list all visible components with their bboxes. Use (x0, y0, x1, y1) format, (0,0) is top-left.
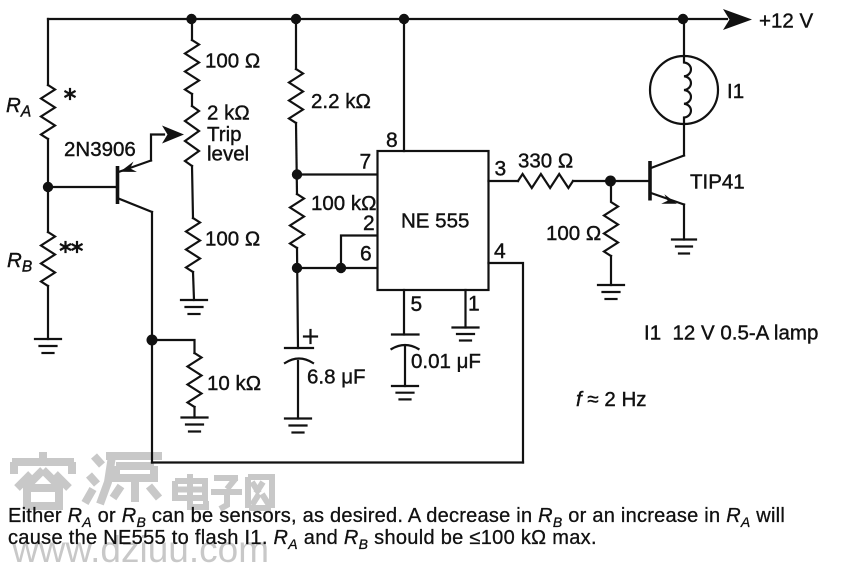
wire 100ohm to pot (191, 94, 193, 106)
resistor 100 kohm (290, 194, 304, 248)
caption line 1 (8, 505, 785, 530)
wire emitter Q2 to ground (683, 205, 685, 240)
wire 330 to base Q2 (573, 180, 649, 182)
wire rail to 2.2k (295, 19, 297, 69)
node rail/2.2k column (291, 14, 301, 24)
svg-text:5: 5 (411, 293, 423, 316)
svg-text:RA: RA (6, 94, 31, 121)
lamp I1 circle (650, 56, 718, 124)
node pin2/pin6 junction (336, 263, 346, 273)
node base Q2 junction (605, 176, 616, 187)
ground emitter Q2 (672, 240, 696, 254)
svg-text:100 Ω: 100 Ω (546, 222, 601, 245)
wire RB to ground (47, 286, 49, 339)
+12V arrowhead (723, 9, 752, 30)
ground below 100ohm (598, 285, 624, 299)
wire C2 to ground (404, 347, 406, 386)
capacitor C1 plus sign (304, 330, 317, 343)
wire 100k down to cap (297, 248, 298, 348)
capacitor C2 curved plate (392, 345, 419, 349)
capacitor C1 6.8uF plus plate (285, 347, 313, 349)
svg-text:10 kΩ: 10 kΩ (207, 372, 261, 395)
svg-text:0.01 μF: 0.01 μF (411, 350, 481, 373)
op-amp/timer U1 NE555 box (378, 151, 489, 290)
label double asterisk (61, 242, 82, 252)
ground below 10k (182, 418, 208, 432)
pin 1 wire (464, 290, 466, 328)
svg-text:4: 4 (494, 240, 506, 263)
wire pin 7 (297, 173, 378, 175)
svg-text:3: 3 (495, 158, 507, 181)
resistor 330 ohm (518, 174, 573, 188)
pin 4 wire (489, 263, 524, 463)
wire +12V top rail (48, 18, 727, 20)
ground below pot chain (181, 300, 207, 314)
wire 2.2k to node7 (296, 123, 297, 194)
svg-text:level: level (207, 143, 249, 166)
wire pin 6 (297, 267, 378, 269)
ground pin 1 (453, 328, 479, 341)
watermark chinese char yuan (85, 456, 162, 504)
label asterisk (65, 89, 74, 99)
svg-text:I1 12 V 0.5-A lamp: I1 12 V 0.5-A lamp (644, 322, 818, 345)
resistor RA (41, 85, 55, 139)
lamp filament coil (684, 56, 691, 124)
svg-text:I1: I1 (727, 80, 744, 103)
svg-text:NE 555: NE 555 (401, 210, 469, 233)
wire pot to lower 100ohm (192, 166, 193, 218)
ground below RB (35, 339, 61, 353)
pin 5 wire (403, 290, 405, 335)
wire pin 2 L (341, 236, 378, 269)
node base junction (43, 182, 53, 192)
pin 3 wire to 330 (489, 180, 519, 182)
wire rail to RA (47, 19, 49, 85)
ground below C2 (392, 386, 418, 399)
wire collector Q2 to lamp (683, 124, 685, 156)
svg-text:7: 7 (360, 151, 372, 174)
wire bottom rail (152, 461, 523, 463)
node rail/pot column (186, 14, 196, 24)
wire base Q1 (48, 186, 117, 188)
node pin7 junction (292, 169, 302, 179)
capacitor C2 0.01uF flat plate (392, 333, 419, 335)
capacitor C1 curved plate (285, 359, 313, 364)
wire to ground (193, 272, 194, 300)
svg-text:100 Ω: 100 Ω (205, 50, 260, 73)
wire 100ohm to ground (610, 256, 612, 285)
ground below C1 (285, 419, 311, 433)
resistor 100 ohm upper (185, 40, 199, 94)
svg-text:8: 8 (386, 129, 398, 152)
watermark chinese char dian (175, 474, 206, 507)
node pin6 junction (292, 263, 302, 273)
svg-text:1: 1 (468, 293, 480, 316)
node rail/lamp (678, 14, 688, 24)
watermark chinese char rong (12, 452, 74, 506)
svg-text:2: 2 (363, 212, 375, 235)
potentiometer 2k trip level (185, 106, 199, 166)
node rail/pin8 (399, 14, 409, 24)
svg-text:2N3906: 2N3906 (64, 138, 136, 161)
watermark chinese char zi (211, 478, 242, 509)
svg-text:+12 V: +12 V (759, 10, 813, 33)
transistor Q1 2N3906 (118, 135, 165, 213)
resistor 100 ohm base Q2 (604, 181, 618, 256)
wire RA to RB (47, 139, 49, 232)
svg-text:6.8 μF: 6.8 μF (307, 366, 366, 389)
wire collector Q1 down (151, 212, 153, 463)
svg-text:6: 6 (360, 243, 372, 266)
caption line 2 (8, 527, 597, 552)
wire C1 to ground (297, 361, 299, 419)
svg-text:100 Ω: 100 Ω (205, 228, 260, 251)
wire rail to 100ohm (191, 19, 193, 40)
svg-text:2 kΩ: 2 kΩ (207, 102, 250, 125)
wire lamp to rail (683, 19, 685, 56)
svg-text:TIP41: TIP41 (690, 171, 745, 194)
resistor RB (41, 232, 55, 286)
wire 10k to ground (193, 407, 195, 418)
resistor 10 kohm (188, 353, 202, 407)
transistor Q2 TIP41 (650, 156, 684, 205)
svg-text:330 Ω: 330 Ω (518, 150, 573, 173)
svg-text:2.2 kΩ: 2.2 kΩ (311, 90, 371, 113)
svg-text:RB: RB (7, 249, 32, 276)
node collector/10k branch (147, 335, 158, 346)
wire branch to 10k (152, 340, 195, 353)
resistor 100 ohm lower (186, 218, 200, 272)
svg-text:f ≈ 2 Hz: f ≈ 2 Hz (576, 388, 647, 411)
watermark chinese char wang (248, 477, 272, 508)
pin 8 wire (403, 19, 405, 151)
resistor 2.2 kohm (289, 69, 303, 123)
wiper arrowhead into pot (162, 126, 184, 144)
